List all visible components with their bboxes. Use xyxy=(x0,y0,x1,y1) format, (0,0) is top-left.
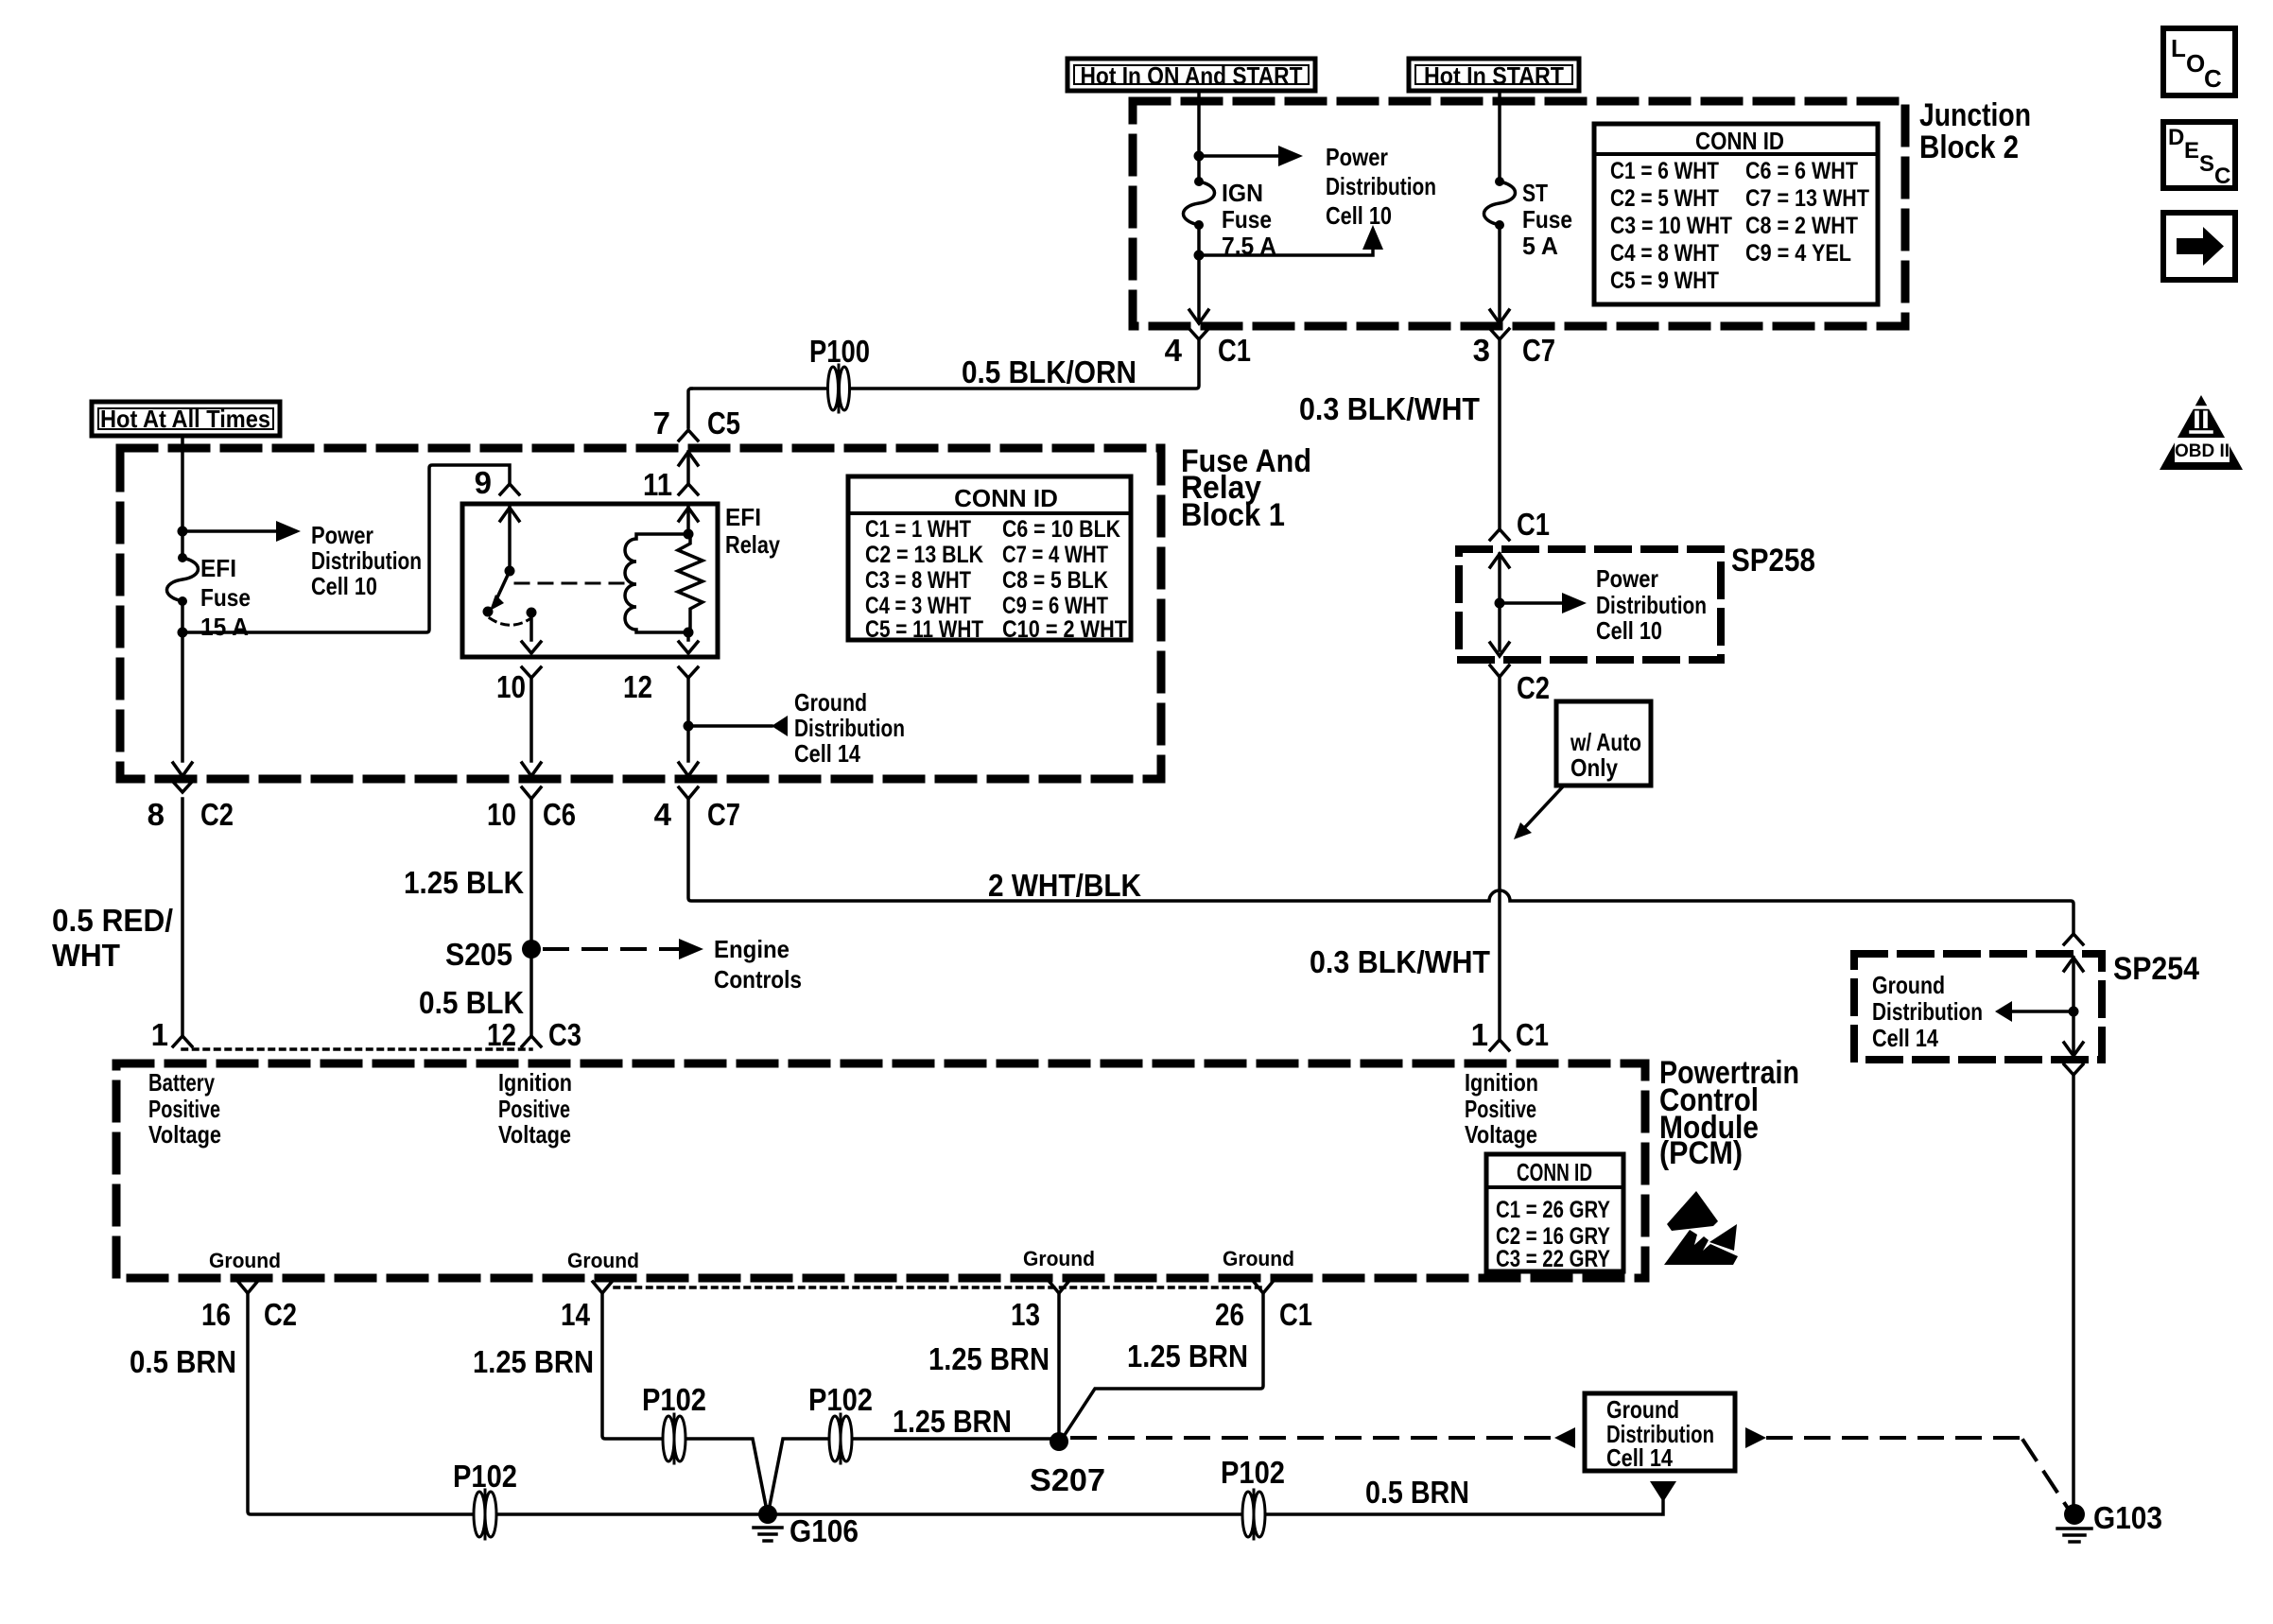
connector dotted line pins 14 to 26 xyxy=(615,1286,1263,1289)
wire branch to Cell 10 up-arrow xyxy=(1199,250,1373,255)
connector pin 9 fork xyxy=(500,484,519,494)
svg-text:Ground: Ground xyxy=(794,688,867,717)
node ST fuse top dot xyxy=(1495,177,1504,186)
arrow out of relay at pin 10 xyxy=(522,642,541,653)
svg-text:C3 = 8 WHT: C3 = 8 WHT xyxy=(865,567,971,594)
connector pin 10 C6 fork xyxy=(522,787,541,799)
svg-text:(PCM): (PCM) xyxy=(1659,1135,1743,1171)
svg-text:12: 12 xyxy=(487,1017,516,1052)
svg-text:C6: C6 xyxy=(543,797,576,832)
svg-text:Battery: Battery xyxy=(148,1068,215,1097)
fuse ST 5A curve xyxy=(1484,181,1515,225)
arrow out of block at pin 8 xyxy=(173,763,192,776)
wire 0.5 RED/WHT pin8 to PCM pin 1 xyxy=(181,799,184,1036)
connector PCM pin 16 C2 fork xyxy=(238,1282,257,1293)
arrow out of block at pin 4 xyxy=(1189,310,1208,323)
svg-text:EFI: EFI xyxy=(725,503,761,531)
wire branch to Power Distribution arrow xyxy=(182,529,276,533)
svg-text:C3 = 22 GRY: C3 = 22 GRY xyxy=(1496,1246,1610,1272)
svg-text:C3 = 10 WHT: C3 = 10 WHT xyxy=(1610,213,1732,239)
dashed actuation line to coil xyxy=(515,582,624,585)
arrow to Power Distribution Cell 10 xyxy=(1278,146,1303,166)
svg-text:C7 = 13 WHT: C7 = 13 WHT xyxy=(1745,185,1869,212)
connector pin 4 C7 fork xyxy=(679,787,698,799)
wire IGN fuse to pin 4 xyxy=(1197,225,1201,322)
node EFI fuse top dot xyxy=(178,553,187,562)
wire 1.25 BRN pin14 to G106 vee xyxy=(602,1293,1050,1511)
svg-text:Block 2: Block 2 xyxy=(1919,130,2019,165)
svg-text:Power: Power xyxy=(1596,564,1658,593)
svg-text:Hot In START: Hot In START xyxy=(1424,61,1564,90)
arrow down from Ground Distribution Cell 14 box xyxy=(1650,1481,1676,1502)
svg-text:0.5 BLK: 0.5 BLK xyxy=(419,985,524,1020)
dashed travel arc between contacts xyxy=(490,618,529,625)
svg-text:Distribution: Distribution xyxy=(1872,997,1983,1026)
connector pin 3 C7 fork xyxy=(1490,329,1509,339)
svg-text:C1: C1 xyxy=(1279,1297,1312,1332)
wire branch to ground distribution arrow xyxy=(688,724,772,728)
svg-text:5 A: 5 A xyxy=(1522,232,1558,260)
svg-text:C2: C2 xyxy=(1517,670,1550,705)
arrow out of SP258 bottom xyxy=(1490,643,1509,656)
svg-text:Hot In ON And START: Hot In ON And START xyxy=(1081,61,1303,90)
svg-text:C1 = 6 WHT: C1 = 6 WHT xyxy=(1610,158,1719,184)
wire EFI fuse down to pin 8 xyxy=(181,601,184,761)
node ground G106 dot xyxy=(758,1505,777,1524)
svg-text:7: 7 xyxy=(653,406,670,441)
wire 1.25 BLK pin10 C6 to S205 xyxy=(529,799,533,1036)
wire C2 down to PCM pin 1 C1 xyxy=(1498,677,1501,1040)
svg-text:SP254: SP254 xyxy=(2113,951,2199,987)
wire pin 10 down to block border xyxy=(529,678,533,761)
node IGN fuse bottom dot xyxy=(1194,220,1204,230)
Fuse And Relay Block 1 dashed border xyxy=(120,448,1161,779)
connector fork above SP254 xyxy=(2064,934,2083,944)
svg-text:10: 10 xyxy=(496,669,526,704)
node EFI fuse bottom dot xyxy=(178,596,187,606)
svg-text:E: E xyxy=(2184,138,2199,164)
svg-text:C5: C5 xyxy=(707,406,740,441)
wire pin 4 C1 down to P100 run xyxy=(691,339,1199,389)
wire branch from EFI fuse to relay pin 9 xyxy=(182,465,510,632)
node IGN lower branch dot xyxy=(1194,251,1205,261)
SP258 dashed border xyxy=(1459,549,1721,660)
arrow into SP254 top xyxy=(2064,958,2083,971)
arrow to Engine Controls xyxy=(679,939,703,959)
svg-text:Ground: Ground xyxy=(567,1249,639,1272)
svg-text:ST: ST xyxy=(1522,179,1548,207)
wire coil bottom down with arrow xyxy=(686,632,690,640)
svg-text:C6 = 6 WHT: C6 = 6 WHT xyxy=(1745,158,1858,184)
CONN ID table Junction Block 2 xyxy=(1594,124,1878,304)
svg-text:S205: S205 xyxy=(445,937,512,972)
svg-text:1.25 BRN: 1.25 BRN xyxy=(473,1344,594,1379)
svg-text:P102: P102 xyxy=(1221,1455,1285,1490)
arrow out of SP254 bottom xyxy=(2064,1043,2083,1056)
svg-text:C2 = 5 WHT: C2 = 5 WHT xyxy=(1610,185,1719,212)
svg-text:S: S xyxy=(2199,151,2214,177)
connector P102 on 0.5 BRN run xyxy=(1242,1490,1265,1539)
connector C2 fork below SP258 xyxy=(1490,665,1509,677)
relay coil winding xyxy=(625,534,688,632)
node switch contact A dot xyxy=(483,607,494,617)
node splice S205 xyxy=(522,940,541,959)
connector PCM pin 14 fork xyxy=(593,1282,612,1293)
connector P102 left of G106 xyxy=(663,1414,685,1463)
svg-text:IGN: IGN xyxy=(1222,179,1263,207)
svg-text:Voltage: Voltage xyxy=(1465,1120,1537,1149)
svg-text:0.5 RED/: 0.5 RED/ xyxy=(52,903,173,938)
svg-text:10: 10 xyxy=(487,797,516,832)
svg-text:II: II xyxy=(2193,406,2210,434)
arrow out of block at pin 10 C6 xyxy=(522,763,541,776)
svg-text:P102: P102 xyxy=(642,1382,706,1417)
svg-text:0.3 BLK/WHT: 0.3 BLK/WHT xyxy=(1310,944,1490,979)
wire branch to power distribution arrow xyxy=(1500,601,1562,605)
resistor inside relay xyxy=(678,534,703,632)
wire from Hot At All Times into block xyxy=(181,436,184,556)
switch arm with arrowhead xyxy=(490,571,510,611)
connector PCM pin 1 C1 fork xyxy=(1490,1040,1509,1050)
node ground-distribution branch dot xyxy=(684,721,694,732)
node EFI branch dot xyxy=(178,527,188,537)
wire 2 WHT/BLK down to G103 xyxy=(2072,1075,2075,1507)
svg-text:13: 13 xyxy=(1011,1297,1040,1332)
node splice S207 xyxy=(1050,1432,1068,1451)
arrow from Ground Distribution text xyxy=(1995,1001,2073,1022)
svg-text:C1: C1 xyxy=(1218,333,1251,368)
svg-text:CONN ID: CONN ID xyxy=(1695,127,1784,155)
svg-text:16: 16 xyxy=(201,1297,231,1332)
CONN ID table PCM xyxy=(1486,1154,1623,1271)
svg-text:0.3 BLK/WHT: 0.3 BLK/WHT xyxy=(1299,391,1480,426)
connector pin 10 fork below relay xyxy=(522,667,541,678)
svg-text:L: L xyxy=(2171,34,2186,62)
svg-text:SP258: SP258 xyxy=(1731,543,1815,579)
svg-text:26: 26 xyxy=(1215,1297,1244,1332)
svg-text:Voltage: Voltage xyxy=(148,1120,221,1149)
arrow out of relay at pin 12 xyxy=(679,642,698,653)
connector PCM pin 26 C1 fork xyxy=(1254,1282,1273,1293)
node ST fuse bottom dot xyxy=(1495,220,1504,230)
connector dotted line pins 1 to 12 C3 xyxy=(182,1047,531,1051)
svg-text:P102: P102 xyxy=(453,1459,517,1494)
svg-text:S207: S207 xyxy=(1030,1462,1105,1497)
wire 0.3 BLK/WHT pin3 C7 down to SP258 xyxy=(1498,339,1501,529)
svg-text:Cell 10: Cell 10 xyxy=(311,572,377,600)
wire from Hot In START to ST fuse xyxy=(1498,91,1501,181)
header box "Hot In ON And START" xyxy=(1067,59,1315,91)
connector pin 4 C1 fork xyxy=(1189,329,1208,339)
arrow to Power Distribution Cell 10 xyxy=(276,521,301,542)
svg-text:11: 11 xyxy=(643,467,672,502)
svg-text:9: 9 xyxy=(475,465,492,500)
connector pin 8 C2 fork xyxy=(173,782,192,792)
svg-text:EFI: EFI xyxy=(200,554,236,582)
connector P102 on pin16 ground run xyxy=(474,1490,496,1539)
arrow out of block at pin 3 xyxy=(1490,310,1509,323)
svg-text:Cell 14: Cell 14 xyxy=(1872,1024,1938,1052)
svg-text:C1 = 26 GRY: C1 = 26 GRY xyxy=(1496,1197,1610,1223)
node ground G103 dot xyxy=(2064,1504,2085,1525)
connector C1 fork above SP258 xyxy=(1490,529,1509,540)
svg-text:C9 = 4 YEL: C9 = 4 YEL xyxy=(1745,240,1851,267)
wire stub up to ground distribution arrow xyxy=(1661,1501,1665,1514)
svg-text:C4 = 3 WHT: C4 = 3 WHT xyxy=(865,593,971,619)
svg-text:C2 = 13 BLK: C2 = 13 BLK xyxy=(865,542,983,568)
svg-text:Ground: Ground xyxy=(1872,971,1945,999)
svg-text:Power: Power xyxy=(1326,143,1388,171)
connector pin 7 C5 fork xyxy=(679,430,698,441)
svg-text:C8 = 5 BLK: C8 = 5 BLK xyxy=(1002,567,1108,594)
svg-text:C8 = 2 WHT: C8 = 2 WHT xyxy=(1745,213,1858,239)
node coil top dot xyxy=(684,529,694,540)
svg-text:0.5 BRN: 0.5 BRN xyxy=(130,1344,236,1379)
svg-text:1.25 BRN: 1.25 BRN xyxy=(893,1404,1012,1439)
svg-text:Ground: Ground xyxy=(1023,1247,1095,1270)
svg-text:C6 = 10 BLK: C6 = 10 BLK xyxy=(1002,516,1120,543)
wire pin 11 to coil top xyxy=(686,508,690,534)
svg-text:Relay: Relay xyxy=(725,530,780,559)
arrow out of block at pin 4 C7 xyxy=(679,763,698,776)
svg-text:Positive: Positive xyxy=(1465,1095,1536,1123)
svg-text:Distribution: Distribution xyxy=(794,714,905,742)
icon OBD II triangle xyxy=(2160,395,2243,470)
dashed wire S207 to Ground Distribution Cell 14 box xyxy=(1072,1436,1551,1440)
svg-text:Ground: Ground xyxy=(1223,1247,1294,1270)
svg-text:1.25 BRN: 1.25 BRN xyxy=(1127,1339,1248,1373)
node EFI lower branch dot xyxy=(178,628,188,638)
svg-text:14: 14 xyxy=(561,1297,591,1332)
svg-text:C2: C2 xyxy=(200,797,234,832)
wire pin 9 to switch pivot xyxy=(508,508,512,571)
wire 0.5 BRN pin16 to ground run xyxy=(248,1293,1660,1514)
arrow out of Ground Distribution box right xyxy=(1745,1427,1766,1448)
svg-text:Ignition: Ignition xyxy=(498,1068,572,1097)
svg-text:C1: C1 xyxy=(1516,1017,1549,1052)
header box "Hot At All Times" xyxy=(92,402,280,436)
fuse IGN 7.5A curve xyxy=(1183,181,1214,225)
svg-text:C7: C7 xyxy=(707,797,740,832)
svg-text:7.5 A: 7.5 A xyxy=(1222,232,1276,260)
svg-text:Cell 14: Cell 14 xyxy=(794,739,860,768)
Powertrain Control Module dashed border xyxy=(116,1063,1645,1278)
arrow from w/ Auto Only to wire xyxy=(1514,786,1564,839)
svg-text:Ground: Ground xyxy=(209,1249,281,1272)
svg-text:Fuse: Fuse xyxy=(1522,205,1572,233)
ground symbol G103 xyxy=(2057,1529,2091,1542)
svg-text:w/ Auto: w/ Auto xyxy=(1570,728,1641,756)
svg-text:WHT: WHT xyxy=(52,938,120,973)
svg-text:C3: C3 xyxy=(548,1017,581,1052)
arrow into block at pin 7 xyxy=(679,452,698,465)
node SP258 splice dot xyxy=(1495,598,1505,609)
CONN ID table Fuse And Relay Block 1 xyxy=(848,476,1131,640)
svg-text:C5 = 11 WHT: C5 = 11 WHT xyxy=(865,616,983,643)
svg-text:P102: P102 xyxy=(808,1382,873,1417)
svg-text:C5 = 9 WHT: C5 = 9 WHT xyxy=(1610,268,1719,294)
svg-text:2 WHT/BLK: 2 WHT/BLK xyxy=(988,868,1141,903)
svg-text:C: C xyxy=(2204,64,2222,93)
node IGN fuse top dot xyxy=(1194,177,1204,186)
svg-text:Controls: Controls xyxy=(714,965,802,993)
wire through SP258 xyxy=(1498,554,1501,650)
svg-text:4: 4 xyxy=(654,797,672,832)
svg-text:G103: G103 xyxy=(2093,1500,2162,1535)
svg-text:3: 3 xyxy=(1473,333,1490,368)
svg-text:Voltage: Voltage xyxy=(498,1120,571,1149)
svg-text:Cell 10: Cell 10 xyxy=(1326,201,1392,230)
wire 1.25 BRN pin26 to S207 xyxy=(1063,1293,1263,1438)
node switch pivot dot xyxy=(505,566,515,577)
wire 1.25 BRN pin13 to S207 xyxy=(1057,1293,1061,1433)
arrow into relay at pin 11 xyxy=(679,508,698,521)
wire from Hot In ON And START to IGN fuse xyxy=(1197,91,1201,178)
svg-text:4: 4 xyxy=(1165,333,1183,368)
svg-text:Engine: Engine xyxy=(714,935,789,963)
node junction dot IGN branch xyxy=(1194,151,1205,162)
node SP254 splice dot xyxy=(2069,1007,2079,1017)
node switch contact B dot xyxy=(527,608,537,618)
arrow up into Cell 10 text xyxy=(1362,225,1383,250)
svg-text:OBD II: OBD II xyxy=(2175,441,2230,461)
svg-text:1: 1 xyxy=(1471,1017,1488,1052)
relay box EFI Relay xyxy=(462,504,718,657)
svg-text:12: 12 xyxy=(623,669,652,704)
svg-text:Cell 14: Cell 14 xyxy=(1606,1443,1673,1472)
svg-text:0.5 BRN: 0.5 BRN xyxy=(1365,1475,1469,1510)
connector pin 12 fork below relay xyxy=(679,667,698,678)
arrow into Ground Distribution box left xyxy=(1554,1427,1575,1448)
wire branch to Power Distribution arrow xyxy=(1199,154,1278,158)
svg-text:Junction: Junction xyxy=(1919,97,2031,133)
wire 2 WHT/BLK pin4 C7 to SP254 with hop over 0.3 BLK/WHT xyxy=(688,799,2073,934)
svg-text:CONN ID: CONN ID xyxy=(1517,1158,1592,1186)
svg-text:C4 = 8 WHT: C4 = 8 WHT xyxy=(1610,240,1719,267)
wire ST fuse to pin 3 xyxy=(1498,225,1501,322)
svg-text:P100: P100 xyxy=(809,334,870,369)
svg-text:C1: C1 xyxy=(1517,507,1550,542)
svg-text:0.5 BLK/ORN: 0.5 BLK/ORN xyxy=(962,354,1136,389)
wire contact B down with arrow xyxy=(529,613,533,640)
svg-text:Distribution: Distribution xyxy=(311,546,422,575)
arrow into relay at pin 9 xyxy=(500,508,519,521)
svg-text:Fuse: Fuse xyxy=(1222,205,1272,233)
dashed wire S205 to Engine Controls xyxy=(545,947,679,951)
SP254 dashed border xyxy=(1854,954,2102,1060)
connector PCM pin 12 C3 fork xyxy=(522,1036,541,1046)
svg-text:Ignition: Ignition xyxy=(1465,1068,1538,1097)
icon right-arrow box xyxy=(2163,213,2235,280)
connector PCM pin 13 fork xyxy=(1050,1282,1068,1293)
box w/ Auto Only xyxy=(1556,701,1651,786)
icon DESC box xyxy=(2163,122,2235,188)
svg-text:Distribution: Distribution xyxy=(1326,172,1436,200)
svg-text:Hot At All Times: Hot At All Times xyxy=(100,405,270,433)
svg-text:Distribution: Distribution xyxy=(1596,591,1707,619)
wire through SP254 xyxy=(2072,958,2075,1055)
svg-text:Only: Only xyxy=(1570,753,1618,782)
svg-text:C: C xyxy=(2214,164,2230,189)
svg-text:Power: Power xyxy=(311,521,373,549)
fuse EFI 15A curve xyxy=(166,558,198,601)
svg-text:O: O xyxy=(2186,49,2205,78)
arrow into SP258 xyxy=(1490,554,1509,567)
svg-text:15 A: 15 A xyxy=(200,613,249,641)
svg-text:C2: C2 xyxy=(264,1297,297,1332)
node coil bottom dot xyxy=(684,628,694,638)
svg-text:C1 = 1 WHT: C1 = 1 WHT xyxy=(865,516,971,543)
connector PCM pin 1 fork xyxy=(173,1036,192,1046)
svg-text:C7 = 4 WHT: C7 = 4 WHT xyxy=(1002,542,1108,568)
svg-text:CONN ID: CONN ID xyxy=(954,484,1058,512)
box Ground Distribution Cell 14 xyxy=(1585,1393,1735,1471)
ESD static sensitive symbol xyxy=(1664,1191,1738,1265)
header box "Hot In START" xyxy=(1409,59,1579,91)
Junction Block 2 dashed border xyxy=(1133,101,1905,326)
svg-text:1.25 BRN: 1.25 BRN xyxy=(928,1341,1050,1376)
wire pin 12 down to block border xyxy=(686,678,690,761)
connector P102 right of G106 xyxy=(829,1414,852,1463)
svg-text:C9 = 6 WHT: C9 = 6 WHT xyxy=(1002,593,1108,619)
svg-text:C7: C7 xyxy=(1522,333,1555,368)
svg-text:8: 8 xyxy=(147,797,165,832)
connector P100 symbol xyxy=(828,365,850,412)
svg-text:Fuse: Fuse xyxy=(200,583,251,612)
svg-text:Cell 10: Cell 10 xyxy=(1596,616,1662,645)
wire corner down to pin 7 C5 xyxy=(688,389,691,427)
arrow to Ground Distribution Cell 14 xyxy=(772,716,788,736)
svg-text:Positive: Positive xyxy=(148,1095,220,1123)
ground symbol G106 xyxy=(754,1528,782,1541)
svg-text:D: D xyxy=(2168,125,2184,150)
svg-text:1: 1 xyxy=(151,1017,168,1052)
svg-text:G106: G106 xyxy=(789,1513,859,1548)
svg-text:C10 = 2 WHT: C10 = 2 WHT xyxy=(1002,616,1127,643)
svg-text:Block 1: Block 1 xyxy=(1181,497,1285,533)
connector pin 11 fork xyxy=(679,484,698,494)
connector fork below SP254 xyxy=(2064,1064,2083,1075)
arrow to Power Distribution Cell 10 xyxy=(1562,593,1587,613)
wire pin 7 C5 through border to pin 11 xyxy=(686,452,690,484)
dashed wire box to G103 xyxy=(1768,1438,2067,1507)
svg-text:1.25 BLK: 1.25 BLK xyxy=(404,865,524,900)
svg-text:Positive: Positive xyxy=(498,1095,570,1123)
icon LOC box xyxy=(2163,28,2235,95)
